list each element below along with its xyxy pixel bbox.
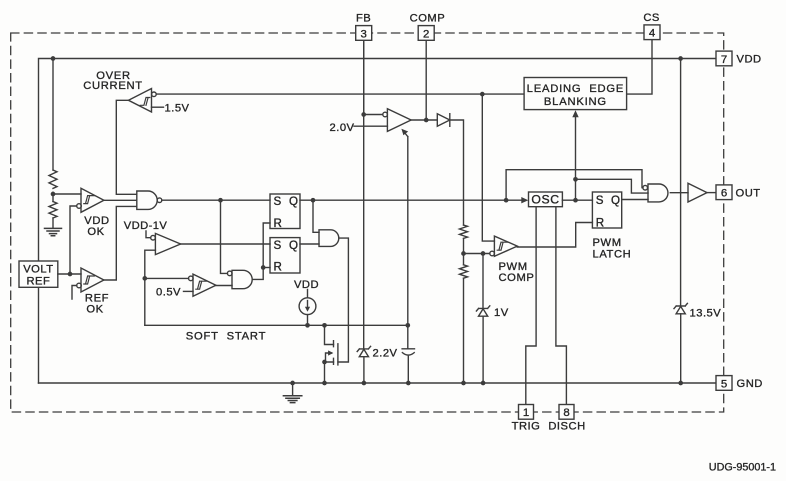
wire enable loop A <box>506 170 643 201</box>
svg-text:R: R <box>274 217 282 230</box>
svg-text:REF: REF <box>26 276 50 288</box>
comparator PWM COMP (schmitt) <box>494 236 517 256</box>
wire COMP line <box>425 40 427 120</box>
wire VDD-1V inverting stub <box>146 231 151 238</box>
svg-text:GND: GND <box>737 378 763 390</box>
nand U-fault 3-input <box>137 191 157 209</box>
resistor R-divider lower <box>49 202 57 219</box>
node 1V zener tap <box>481 251 486 256</box>
wire soft-start clamp arrow <box>404 131 408 136</box>
svg-text:CS: CS <box>643 12 660 24</box>
wire OSC trig leg <box>526 207 536 405</box>
and U-ss2 with inverted input <box>232 270 252 288</box>
svg-text:1.5V: 1.5V <box>165 103 190 115</box>
wire FB to error amp inverting input <box>364 114 383 116</box>
wire REF OK inverting input stub <box>72 286 77 300</box>
svg-text:UDG-95001-1: UDG-95001-1 <box>709 462 776 474</box>
wire PWM latch Q to AND <box>622 199 648 201</box>
wire 2.0V stub <box>354 125 387 127</box>
node CS-blanked tap <box>480 92 485 97</box>
latch U-pwm box <box>592 192 621 228</box>
node SS/drain <box>322 323 327 328</box>
node pwm divider mid <box>461 251 466 256</box>
pin 6 OUT <box>716 185 732 200</box>
node COMP/output <box>424 118 429 123</box>
svg-text:1: 1 <box>523 407 529 419</box>
svg-text:VOLT: VOLT <box>23 264 53 276</box>
node SS/current source <box>305 323 310 328</box>
volt-ref box <box>19 261 58 287</box>
pin 4 CS <box>644 25 660 40</box>
wire error amp output <box>411 119 437 121</box>
zener D-1V <box>482 254 484 309</box>
pin 3 FB <box>356 26 372 41</box>
svg-text:3: 3 <box>361 28 367 40</box>
resistor R-pwm-upper <box>460 225 468 238</box>
resistor R-divider upper <box>49 170 57 188</box>
pin 7 VDD <box>716 51 732 66</box>
svg-text:4: 4 <box>649 28 655 40</box>
zener D-2.2V <box>363 40 365 349</box>
zener D-13.5V <box>680 59 682 307</box>
wire buffer to OUT pin <box>707 192 716 194</box>
pin 8 DISCH <box>559 405 574 420</box>
wire soft-start rail <box>145 324 408 326</box>
wire VREF output to REF OK <box>58 273 81 275</box>
svg-text:5: 5 <box>721 378 727 390</box>
wire to latch2 R <box>263 267 270 269</box>
current source I-ss <box>307 290 309 326</box>
wire 0.5V comp inverting input to SS node <box>145 277 189 279</box>
and U-ss (2-input) <box>319 230 339 247</box>
wire OSC node up to LEB with arrow <box>575 115 577 200</box>
wire FB line <box>363 40 365 114</box>
node FB/error-amp <box>361 112 366 117</box>
wire latch2 Q to AND <box>300 243 319 245</box>
resistor R-pwm-lower <box>460 265 468 278</box>
wire diode to divider <box>450 120 464 225</box>
node gnd/cap <box>406 381 411 386</box>
svg-text:Q: Q <box>289 195 298 208</box>
wire REF OK output up to NAND <box>104 206 137 280</box>
svg-text:2.0V: 2.0V <box>330 122 355 134</box>
node mosfet source <box>322 360 327 365</box>
pin 5 GND <box>716 376 732 391</box>
node gnd/ground-symbol <box>290 381 295 386</box>
ground main <box>292 383 294 396</box>
svg-text:6: 6 <box>721 188 727 200</box>
transistor Q-ss-discharge (NMOS, mirrored) <box>325 325 334 344</box>
svg-text:PWM: PWM <box>593 237 622 249</box>
wire divider to GND <box>463 278 465 383</box>
svg-text:FB: FB <box>356 13 371 25</box>
arrowhead into OSC <box>521 197 528 203</box>
wire PWM comp output to latch R <box>517 223 592 248</box>
svg-text:CURRENT: CURRENT <box>83 80 143 92</box>
comparator VDD OK (schmitt) <box>81 188 104 212</box>
node clock tap <box>573 177 578 182</box>
svg-text:SOFT START: SOFT START <box>186 331 267 343</box>
wire Q1 down to AND top input <box>313 200 319 232</box>
and U-out 3-input <box>648 184 668 202</box>
wire VDD-1V output to latch2 S <box>181 243 270 245</box>
comparator over-current (left-pointing, schmitt) <box>129 89 152 113</box>
svg-text:LATCH: LATCH <box>593 248 632 260</box>
buffer U-drv <box>688 183 707 202</box>
wire AND to buffer <box>670 192 688 194</box>
node gnd/mosfet <box>322 381 327 386</box>
node OSC out <box>573 198 578 203</box>
svg-text:Q: Q <box>289 239 298 252</box>
wire divider drop from VDD <box>52 59 54 171</box>
node Q1 <box>311 198 316 203</box>
wire latch1 Q output to OSC <box>300 199 524 201</box>
ground divider <box>45 228 62 235</box>
svg-text:OK: OK <box>86 304 103 316</box>
wire OSC disch leg <box>556 207 567 405</box>
pin 2 COMP <box>418 26 434 41</box>
comparator 0.5V (schmitt) <box>193 274 216 296</box>
wire clock loop B <box>576 179 649 193</box>
node VREF <box>68 272 73 277</box>
node NAND out <box>218 198 223 203</box>
svg-text:R: R <box>274 261 282 274</box>
svg-text:13.5V: 13.5V <box>690 307 722 319</box>
comparator REF OK (schmitt) <box>81 268 104 292</box>
wire GND rail <box>39 382 717 384</box>
diode D-comp <box>437 114 450 127</box>
wire 1.5V stub <box>152 106 164 108</box>
IC dashed boundary <box>11 33 724 412</box>
node gnd/1V <box>481 381 486 386</box>
wire LEB output down to PWM comp <box>482 94 494 241</box>
wire VDD OK output to NAND <box>104 199 137 201</box>
wire NAND1 output node down to inverted input <box>221 200 228 273</box>
op-amp error-amp 2.0V <box>387 109 411 132</box>
svg-text:1V: 1V <box>494 307 509 319</box>
wire <box>463 238 465 264</box>
svg-text:OUT: OUT <box>736 187 761 199</box>
wire NAND output to latch1 S <box>162 199 270 201</box>
node SS/cap <box>405 323 410 328</box>
node OSC in <box>504 198 509 203</box>
wire CS line to LEB <box>627 40 652 94</box>
svg-text:8: 8 <box>563 407 569 419</box>
wire gate output up to latch resets <box>252 223 270 279</box>
node gnd/divider <box>461 381 466 386</box>
svg-text:OSC: OSC <box>531 193 559 207</box>
svg-text:COMP: COMP <box>499 272 535 284</box>
svg-text:OK: OK <box>87 226 104 238</box>
node reset <box>261 265 266 270</box>
latch U-start-2 box <box>270 238 300 273</box>
svg-text:7: 7 <box>721 54 727 66</box>
svg-text:PWM: PWM <box>499 261 528 273</box>
wire 0.5V comp output to gate <box>216 285 232 287</box>
node gnd/2.2V <box>362 381 367 386</box>
svg-text:R: R <box>596 216 604 229</box>
svg-text:S: S <box>274 195 282 208</box>
svg-text:Q: Q <box>611 194 620 207</box>
osc box <box>529 192 563 207</box>
svg-text:VDD: VDD <box>294 279 319 291</box>
wire to ground <box>52 218 54 228</box>
wire over-current inverting input from LEB <box>156 93 524 95</box>
svg-text:TRIG: TRIG <box>512 420 541 432</box>
latch U-start-1 box <box>270 194 300 229</box>
svg-text:VDD: VDD <box>737 54 762 66</box>
wire 0.5V stub <box>184 290 194 292</box>
wire between divider resistors <box>52 192 54 201</box>
wire OSC to PWM latch S <box>562 199 592 201</box>
wire VDD rail <box>39 59 717 384</box>
svg-text:DISCH: DISCH <box>548 420 585 432</box>
svg-text:COMP: COMP <box>410 13 446 25</box>
comparator VDD-1V <box>155 233 180 254</box>
svg-text:BLANKING: BLANKING <box>544 96 607 108</box>
node VDD/divider <box>51 56 56 61</box>
svg-text:2: 2 <box>423 28 429 40</box>
wire AND output to MOSFET gate <box>338 238 348 362</box>
svg-text:2.2V: 2.2V <box>373 348 398 360</box>
wire divider tap to VDD OK <box>53 193 81 195</box>
node divider tap <box>51 192 56 197</box>
svg-text:S: S <box>274 239 282 252</box>
wire VDD OK inverting input to VREF node <box>70 206 77 274</box>
wire PWM comp inverting input <box>464 253 490 255</box>
node SS/0.5V <box>142 276 147 281</box>
pin 1 TRIG <box>519 405 534 420</box>
capacitor C-ss <box>402 325 414 383</box>
svg-text:0.5V: 0.5V <box>156 286 181 298</box>
node gnd/13.5V <box>678 381 683 386</box>
wire VDD-1V plus input from soft-start node <box>145 250 156 325</box>
node VDD/13.5V <box>678 56 683 61</box>
wire over-current output down to NAND <box>116 100 137 194</box>
svg-text:S: S <box>596 194 604 207</box>
leading-edge-blanking box <box>524 78 627 110</box>
svg-text:LEADING EDGE: LEADING EDGE <box>527 83 624 95</box>
